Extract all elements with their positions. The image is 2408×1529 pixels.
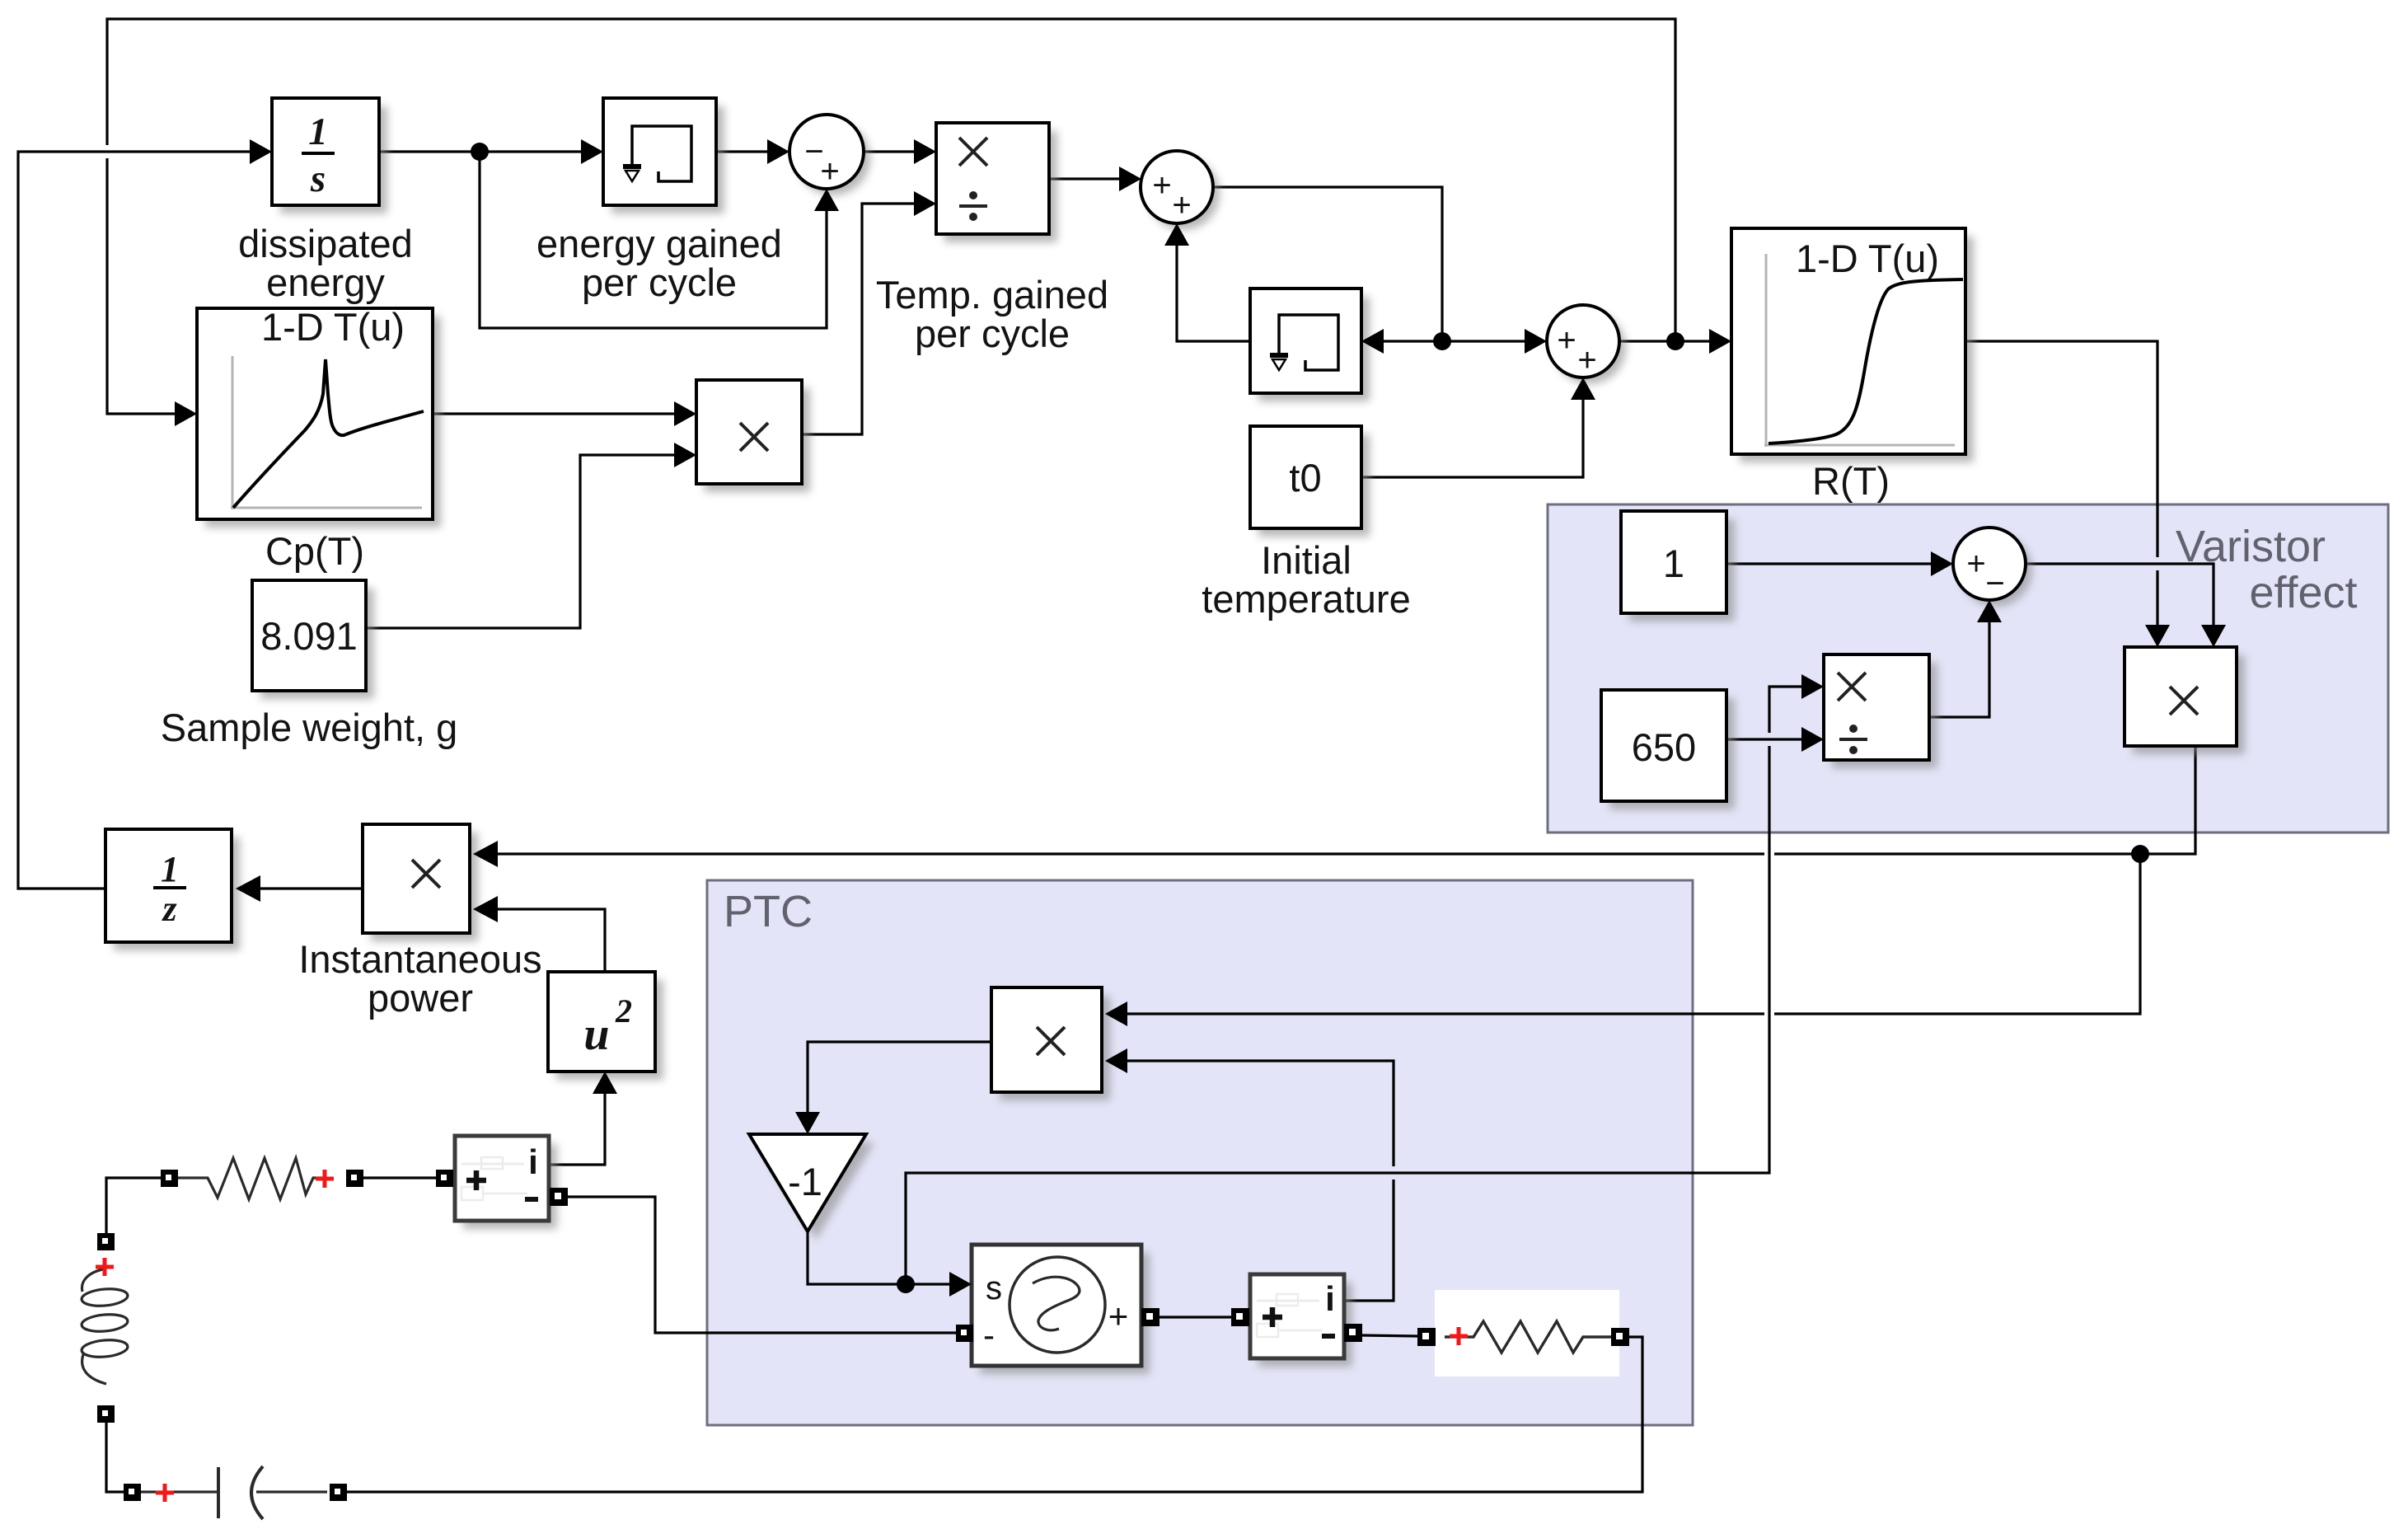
arrowheads bbox=[175, 139, 2226, 1297]
wire Sum1 output to Product1 first input bbox=[864, 150, 933, 152]
sum S4 bbox=[1953, 528, 2032, 607]
wire feedback from junction to Sum1 plus input bbox=[480, 152, 827, 328]
svg-text:+: + bbox=[1172, 187, 1191, 223]
svg-text:power: power bbox=[368, 976, 473, 1020]
port squares bbox=[97, 1170, 1629, 1501]
wire resistor R1 to current sensor1 plus bbox=[363, 1176, 437, 1179]
arrow into Product2 first bbox=[674, 401, 696, 426]
arrow into PTC product second bbox=[1105, 1048, 1127, 1073]
svg-text:-: - bbox=[983, 1316, 995, 1354]
product in Varistor bbox=[2125, 647, 2245, 754]
arrow into gain bbox=[795, 1112, 820, 1134]
arrow into Sum3 left bbox=[1525, 329, 1547, 354]
svg-text:effect: effect bbox=[2249, 568, 2357, 617]
current sensor 1 bbox=[455, 1136, 557, 1229]
svg-text:Instantaneous: Instantaneous bbox=[298, 937, 541, 981]
svg-text:+: + bbox=[820, 153, 839, 190]
svg-text:+: + bbox=[1966, 546, 1985, 582]
wire R(T) output down to Varistor product first input bbox=[1965, 341, 2157, 557]
resistor R1 bbox=[178, 1158, 325, 1199]
arrow into voltage source s bbox=[949, 1272, 972, 1297]
arrow into 1/s bbox=[250, 139, 272, 164]
wire node A to Sum3 left input bbox=[1442, 340, 1544, 342]
wire current sensor1 minus to voltage source minus bbox=[568, 1197, 956, 1333]
arrow into PTC product first bbox=[1105, 1001, 1127, 1026]
port sensor2 plus bbox=[1231, 1308, 1249, 1326]
svg-text:dissipated: dissipated bbox=[238, 222, 413, 265]
wire Varistor product output long line to Instantaneous power first input bbox=[1774, 746, 2195, 854]
port sensor2 minus bbox=[1344, 1324, 1362, 1342]
port resistor R1 left bbox=[161, 1170, 178, 1187]
svg-text:Temp. gained: Temp. gained bbox=[876, 273, 1108, 317]
svg-text:u: u bbox=[583, 1009, 609, 1060]
red plus capacitor bbox=[156, 1484, 174, 1502]
arrow into u squared bottom bbox=[593, 1072, 617, 1094]
arrow into Varistor product second bbox=[2201, 625, 2226, 647]
wire Varistor product-divide output to Sum4 bottom input bbox=[1929, 603, 1989, 717]
wire Sum2 output down to node A bbox=[1213, 187, 1442, 341]
wire current sensor2 minus to PTC resistor R2 bbox=[1362, 1335, 1417, 1336]
arrow into Memory2 right bbox=[1361, 329, 1384, 354]
wire gain -1 output to controlled voltage source s input with node D bbox=[808, 1231, 968, 1284]
red plus resistor R1 bbox=[316, 1170, 334, 1188]
wire Sum4 output down to Varistor product second input bbox=[2026, 564, 2214, 644]
wire voltage source plus to current sensor2 plus bbox=[1159, 1316, 1231, 1318]
controlled voltage source bbox=[972, 1245, 1150, 1374]
port resistor R2 left bbox=[1417, 1328, 1436, 1346]
wire Memory2 output to Sum2 bottom input bbox=[1177, 227, 1250, 341]
svg-text:i: i bbox=[528, 1142, 538, 1181]
arrow into 1/z bbox=[236, 875, 260, 902]
arrow into Sum2 left bbox=[1119, 167, 1141, 191]
port resistor R2 right bbox=[1611, 1328, 1629, 1346]
arrow into Sum3 bottom bbox=[1571, 378, 1595, 400]
area Varistor effect bbox=[1548, 504, 2388, 833]
constant t0 bbox=[1202, 426, 1410, 621]
wire Instantaneous power output to 1/z input bbox=[260, 887, 363, 889]
svg-text:s: s bbox=[986, 1270, 1002, 1306]
arrow into Instantaneous power first bbox=[473, 841, 498, 867]
wire 8.091 constant to Product2 second input bbox=[366, 455, 693, 628]
product-divide Temp. gained per cycle bbox=[876, 123, 1108, 355]
arrow into Instantaneous power second bbox=[473, 896, 498, 922]
svg-text:s: s bbox=[310, 157, 326, 200]
wire t0 to Sum3 bottom input bbox=[1361, 381, 1583, 477]
port resistor R1 right bbox=[346, 1170, 363, 1187]
arrow into Sum2 bottom bbox=[1164, 223, 1189, 246]
unit delay 1/z bbox=[105, 829, 240, 950]
svg-text:-1: -1 bbox=[788, 1160, 822, 1203]
node D voltage command bbox=[897, 1275, 915, 1293]
svg-text:1: 1 bbox=[161, 849, 179, 889]
svg-text:8.091: 8.091 bbox=[260, 614, 358, 658]
svg-text:1: 1 bbox=[308, 110, 328, 153]
svg-text:per cycle: per cycle bbox=[915, 312, 1070, 355]
port voltage source minus bbox=[956, 1325, 973, 1342]
node A bbox=[1433, 332, 1451, 350]
svg-text:per cycle: per cycle bbox=[582, 260, 737, 304]
svg-text:temperature: temperature bbox=[1202, 577, 1410, 621]
integrator 1/s dissipated energy bbox=[238, 98, 413, 304]
sum S2 bbox=[1141, 151, 1220, 230]
lookup table Cp(T) bbox=[197, 305, 441, 573]
svg-text:Initial: Initial bbox=[1261, 538, 1352, 582]
port capacitor left bbox=[124, 1484, 141, 1501]
PTC resistor R2 on white patch bbox=[1435, 1290, 1619, 1377]
arrow into R(T) bbox=[1709, 329, 1731, 354]
red plus inductor bbox=[96, 1258, 114, 1276]
inductor L1 bbox=[81, 1269, 129, 1384]
node B temperature bbox=[1666, 332, 1684, 350]
svg-text:t0: t0 bbox=[1289, 456, 1321, 500]
svg-text:+: + bbox=[1108, 1297, 1129, 1335]
arrow into Varistor product first bbox=[2145, 625, 2170, 647]
product-divide in Varistor bbox=[1824, 654, 1937, 768]
wire constant 650 to divide input of Varistor product-divide bbox=[1726, 738, 1820, 740]
lookup table R(T) bbox=[1731, 228, 1974, 503]
svg-text:1-D T(u): 1-D T(u) bbox=[261, 305, 405, 349]
wire u squared output to Instantaneous power second input bbox=[478, 909, 605, 972]
svg-text:1: 1 bbox=[1663, 542, 1684, 585]
constant 8.091 Sample weight bbox=[161, 580, 458, 749]
port sensor1 plus bbox=[436, 1170, 453, 1187]
svg-text:650: 650 bbox=[1632, 725, 1696, 769]
constant 1 bbox=[1621, 511, 1735, 621]
arrow into Product2 second bbox=[674, 443, 696, 467]
arrow into Product1 first bbox=[914, 139, 936, 164]
math function u squared bbox=[548, 972, 663, 1080]
svg-text:1-D T(u): 1-D T(u) bbox=[1796, 237, 1939, 280]
port inductor bottom bbox=[97, 1405, 115, 1423]
current sensor 2 in PTC bbox=[1250, 1274, 1352, 1367]
wire temperature loop node B up over top to Cp(T) input bbox=[107, 19, 1675, 341]
wire PTC resistor R2 to bottom rail bbox=[347, 1337, 1642, 1492]
port capacitor right bbox=[330, 1484, 347, 1501]
wire temperature loop lower segment into Cp(T) bbox=[107, 158, 194, 414]
capacitor C1 bbox=[141, 1466, 327, 1519]
wire 1/z output to 1/s input bbox=[18, 152, 269, 889]
svg-text:+: + bbox=[1577, 342, 1596, 378]
sum S3 bbox=[1547, 305, 1626, 384]
svg-text:z: z bbox=[161, 889, 176, 929]
wire node C down to PTC product first input bbox=[1774, 854, 2140, 1014]
arrow into Varistor divide input bbox=[1801, 727, 1824, 752]
wire 1/s output to Memory1 with junction bbox=[379, 150, 600, 152]
arrow into Sum1 left bbox=[767, 139, 789, 164]
svg-text:+: + bbox=[1557, 322, 1576, 359]
wire PTC product output to gain -1 bbox=[808, 1042, 991, 1131]
red plus resistor R2 bbox=[1450, 1327, 1468, 1345]
product in PTC bbox=[991, 987, 1110, 1100]
wire inductor top to resistor R1 left bbox=[106, 1178, 161, 1233]
wire current sensor1 i output up to u squared input bbox=[549, 1076, 605, 1165]
svg-text:Sample weight, g: Sample weight, g bbox=[161, 706, 458, 749]
memory block energy gained per cycle bbox=[536, 98, 782, 304]
svg-text:energy gained: energy gained bbox=[536, 222, 782, 265]
svg-text:R(T): R(T) bbox=[1812, 459, 1890, 503]
wire Cp(T) output to Product2 first input bbox=[433, 412, 693, 415]
wire Sum3 output to R(T) input with junction node B bbox=[1619, 340, 1728, 342]
product P2 bbox=[696, 380, 810, 492]
sum S1 bbox=[789, 115, 870, 195]
wire constant 1 to Sum4 bbox=[1726, 562, 1950, 565]
wire capacitor left to inductor bottom bbox=[106, 1423, 124, 1492]
node C resistance bbox=[2131, 845, 2149, 863]
svg-text:+: + bbox=[1152, 167, 1171, 204]
svg-text:Cp(T): Cp(T) bbox=[265, 529, 364, 573]
arrow into Sum1 bottom bbox=[814, 189, 839, 211]
wire Product1 output to Sum2 left input bbox=[1049, 177, 1138, 180]
wire Product2 output up to Product1 divide input bbox=[802, 204, 933, 434]
gain -1 bbox=[749, 1134, 874, 1240]
svg-text:−: − bbox=[1985, 565, 2004, 602]
memory block 2 bbox=[1250, 288, 1370, 401]
svg-text:2: 2 bbox=[615, 992, 632, 1029]
port sensor1 minus bbox=[550, 1188, 568, 1206]
arrow into Memory1 bbox=[581, 139, 603, 164]
constant 650 bbox=[1601, 690, 1735, 809]
wire Memory1 output to Sum1 minus input bbox=[716, 150, 786, 152]
product Instantaneous power bbox=[298, 824, 541, 1020]
area PTC bbox=[707, 880, 1693, 1425]
port inductor top bbox=[97, 1233, 115, 1250]
node after 1/s bbox=[471, 143, 489, 161]
arrow into Product1 divide bbox=[914, 191, 936, 216]
wire current sensor2 i output up to PTC product second input bbox=[1344, 1180, 1394, 1301]
wire node A to Memory2 input bbox=[1365, 340, 1442, 342]
arrow into Varistor product-divide first bbox=[1801, 674, 1824, 699]
wire PTC feedback up to Varistor product-divide first input bbox=[906, 746, 1769, 1284]
svg-text:PTC: PTC bbox=[724, 887, 813, 936]
port voltage source plus bbox=[1141, 1308, 1159, 1326]
svg-text:energy: energy bbox=[266, 260, 385, 304]
arrow into Cp(T) bbox=[175, 401, 197, 426]
svg-text:i: i bbox=[1325, 1279, 1335, 1318]
arrow into Sum4 left bbox=[1931, 551, 1953, 576]
red polarity marks bbox=[96, 1170, 1468, 1502]
arrow into Sum4 bottom bbox=[1977, 600, 2002, 622]
